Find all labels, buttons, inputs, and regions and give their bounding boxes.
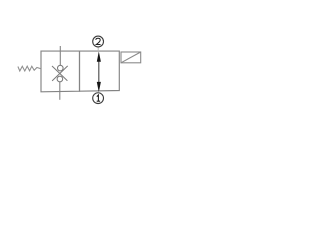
wire: port 2 stub	[97, 47, 99, 51]
port label circle 1	[93, 93, 104, 104]
solenoid U1	[121, 52, 141, 63]
check ball lower	[57, 76, 63, 82]
check ball upper	[58, 65, 64, 71]
two-way arrow shaft	[98, 60, 100, 83]
arrowhead down	[97, 82, 101, 92]
wire: check line upper stub	[59, 46, 61, 66]
valve envelope right box	[80, 51, 120, 91]
wire: check line lower stub	[59, 82, 61, 100]
spring	[18, 66, 41, 71]
arrowhead up	[97, 51, 101, 61]
valve envelope left box	[41, 51, 80, 92]
port label circle 2	[93, 36, 104, 47]
check valve seats (X)	[52, 66, 68, 81]
